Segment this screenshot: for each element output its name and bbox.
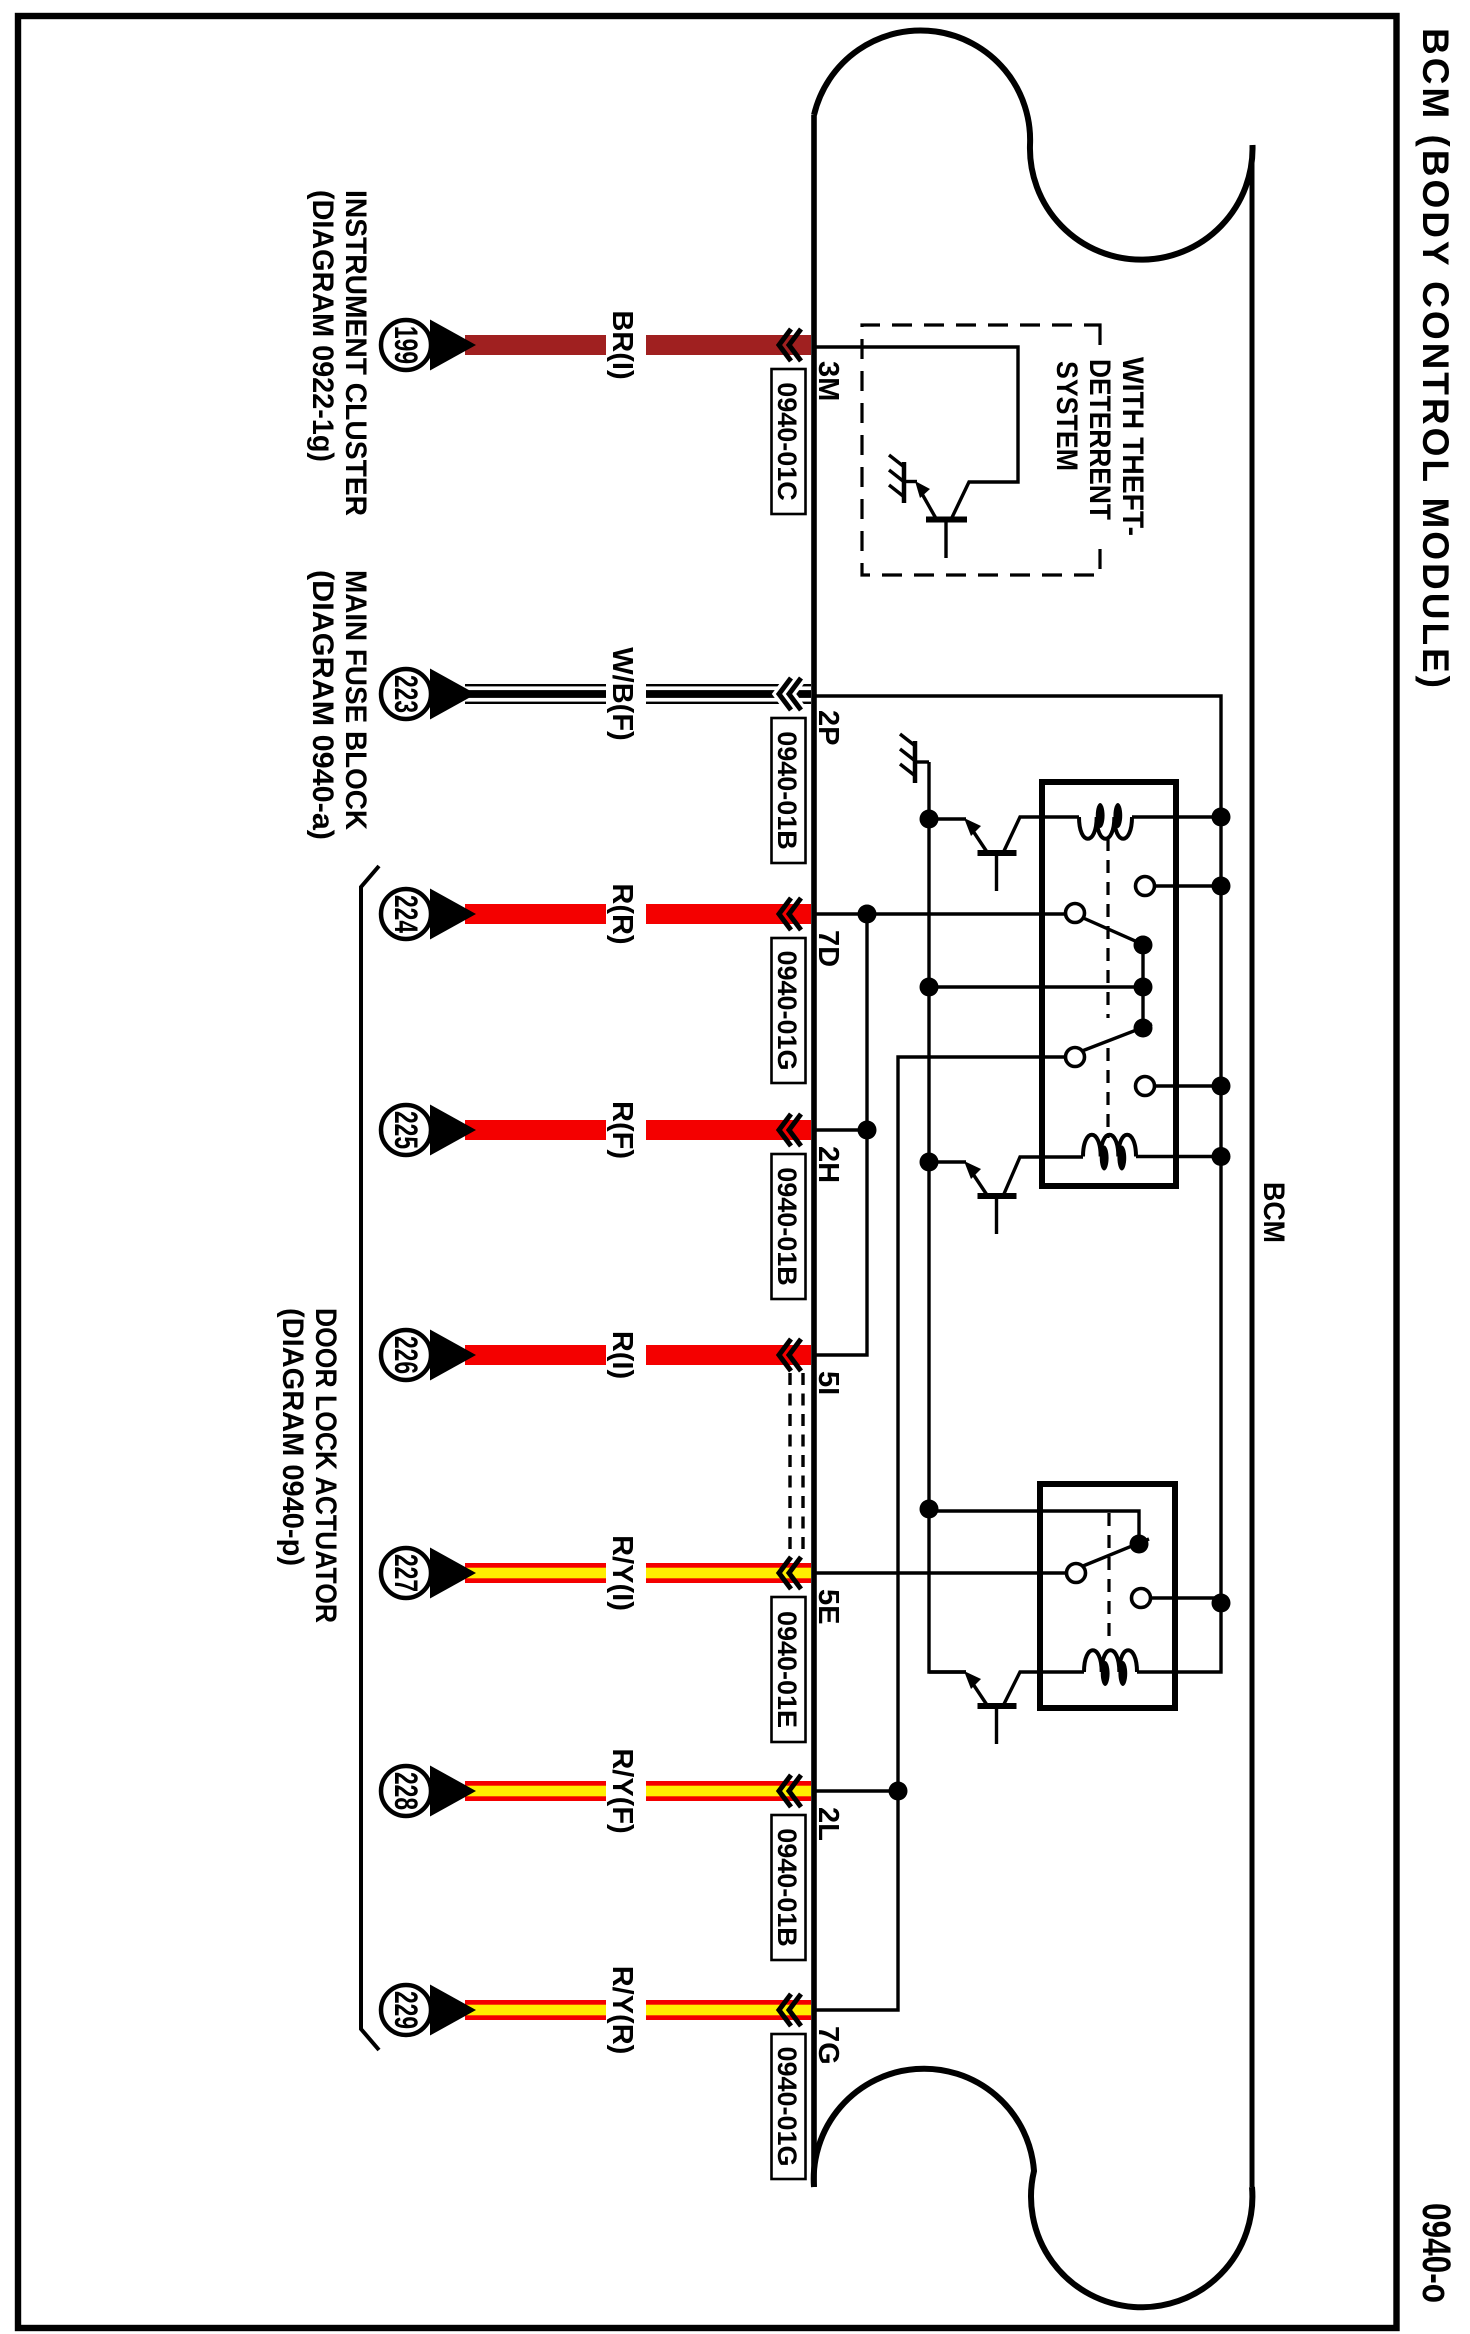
svg-text:224: 224	[388, 895, 424, 933]
svg-text:R(I): R(I)	[606, 1331, 638, 1379]
svg-text:DETERRENT: DETERRENT	[1083, 359, 1116, 520]
svg-text:2L: 2L	[812, 1807, 844, 1841]
svg-text:0940-01E: 0940-01E	[772, 1611, 802, 1728]
svg-text:BR(I): BR(I)	[606, 310, 638, 379]
svg-text:R/Y(I): R/Y(I)	[606, 1535, 638, 1611]
svg-text:(DIAGRAM 0940-p): (DIAGRAM 0940-p)	[276, 1308, 309, 1566]
svg-text:R(F): R(F)	[606, 1101, 638, 1159]
svg-text:0940-01B: 0940-01B	[772, 731, 802, 850]
svg-text:0940-01C: 0940-01C	[772, 382, 802, 501]
svg-text:BCM (BODY CONTROL MODULE): BCM (BODY CONTROL MODULE)	[1415, 28, 1456, 688]
svg-text:R/Y(F): R/Y(F)	[606, 1748, 638, 1833]
svg-text:SYSTEM: SYSTEM	[1050, 361, 1083, 471]
svg-text:2P: 2P	[812, 710, 844, 745]
svg-text:223: 223	[388, 675, 424, 713]
svg-text:0940-01B: 0940-01B	[772, 1828, 802, 1947]
svg-text:MAIN FUSE BLOCK: MAIN FUSE BLOCK	[339, 570, 372, 830]
svg-text:0940-01G: 0940-01G	[772, 950, 802, 1070]
svg-text:226: 226	[388, 1336, 424, 1374]
svg-text:R/Y(R): R/Y(R)	[606, 1966, 638, 2055]
svg-text:(DIAGRAM 0922-1g): (DIAGRAM 0922-1g)	[306, 190, 339, 462]
svg-text:228: 228	[388, 1772, 424, 1810]
svg-text:7G: 7G	[812, 2026, 844, 2065]
svg-text:WITH THEFT-: WITH THEFT-	[1116, 357, 1149, 536]
svg-text:BCM: BCM	[1257, 1182, 1290, 1243]
svg-text:227: 227	[388, 1554, 424, 1592]
svg-text:DOOR LOCK ACTUATOR: DOOR LOCK ACTUATOR	[309, 1308, 342, 1623]
svg-text:0940-01G: 0940-01G	[772, 2046, 802, 2166]
svg-text:(DIAGRAM 0940-a): (DIAGRAM 0940-a)	[306, 570, 339, 840]
svg-text:199: 199	[388, 326, 424, 364]
svg-text:R(R): R(R)	[606, 883, 638, 944]
svg-text:0940-01B: 0940-01B	[772, 1167, 802, 1286]
svg-text:5E: 5E	[812, 1589, 844, 1624]
svg-text:INSTRUMENT CLUSTER: INSTRUMENT CLUSTER	[339, 190, 372, 516]
svg-text:3M: 3M	[812, 361, 844, 401]
svg-text:7D: 7D	[812, 930, 844, 967]
svg-text:2H: 2H	[812, 1146, 844, 1183]
svg-text:5I: 5I	[812, 1371, 844, 1395]
svg-text:W/B(F): W/B(F)	[606, 647, 638, 740]
svg-text:229: 229	[388, 1991, 424, 2029]
svg-text:225: 225	[388, 1111, 424, 1149]
svg-text:0940-o: 0940-o	[1414, 2203, 1458, 2303]
